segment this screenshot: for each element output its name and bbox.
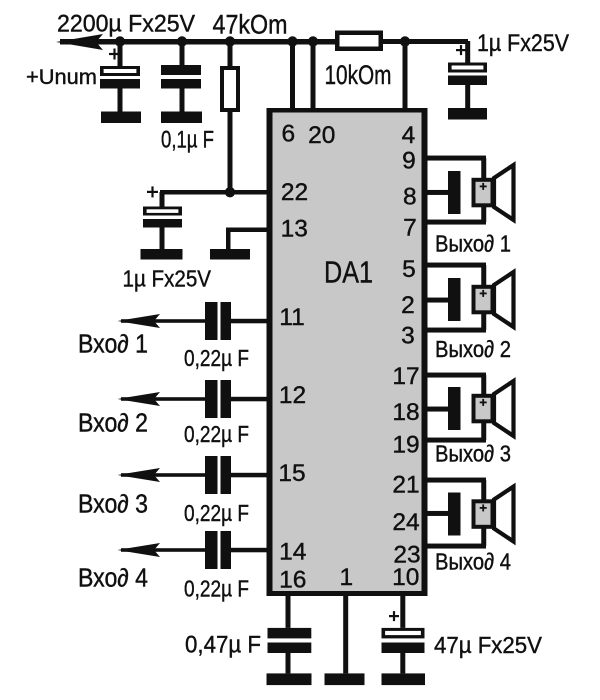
svg-text:0,22µ F: 0,22µ F <box>184 500 249 526</box>
wire input 2 left <box>121 397 205 401</box>
wire input 4 right <box>231 548 268 553</box>
ground under C2 <box>161 112 202 124</box>
ground under C9 <box>267 673 312 685</box>
svg-text:13: 13 <box>281 216 308 243</box>
input row 4: arrow Вход 4 <box>118 543 161 557</box>
ground under C4 <box>141 249 183 260</box>
svg-text:0,22µ F: 0,22µ F <box>184 421 249 447</box>
pin 16 lead <box>286 596 291 628</box>
ground under C1 <box>101 112 141 124</box>
svg-text:0,47µ F: 0,47µ F <box>185 632 261 659</box>
svg-text:18: 18 <box>392 399 419 426</box>
svg-text:1µ Fx25V: 1µ Fx25V <box>123 266 212 292</box>
input row 1: arrow Вход 1 <box>118 314 161 328</box>
speaker LS4 <box>472 487 514 542</box>
svg-text:11: 11 <box>279 304 304 331</box>
wire pin 22 <box>160 190 267 195</box>
svg-text:9: 9 <box>402 148 416 175</box>
svg-text:22: 22 <box>281 179 308 206</box>
capacitor C3 1µFx25V <box>448 41 487 108</box>
capacitor C7 0,22µF <box>205 456 231 494</box>
output 3 wires pins 17,18,19 <box>425 373 486 443</box>
wire input 3 right <box>231 473 268 478</box>
speaker LS1 <box>472 165 514 220</box>
svg-text:1µ Fx25V: 1µ Fx25V <box>477 30 569 57</box>
svg-text:Вхо∂ 1: Вхо∂ 1 <box>78 331 148 359</box>
resistor R1 47kOm <box>220 44 240 192</box>
svg-text:20: 20 <box>308 122 335 149</box>
ground under C10 <box>382 673 426 685</box>
capacitor C13 output 3 <box>448 387 461 430</box>
wire power rail left <box>60 39 336 45</box>
svg-text:15: 15 <box>278 460 305 487</box>
svg-text:DA1: DA1 <box>324 255 373 290</box>
capacitor C4 1µFx25V <box>143 186 182 249</box>
capacitor C6 0,22µF <box>205 380 231 418</box>
svg-text:19: 19 <box>392 432 419 459</box>
svg-text:0,22µ F: 0,22µ F <box>184 576 249 602</box>
svg-text:5: 5 <box>402 256 416 283</box>
capacitor C2 0,1µF <box>161 41 201 112</box>
svg-text:12: 12 <box>279 382 306 409</box>
svg-text:47µ Fx25V: 47µ Fx25V <box>434 632 542 658</box>
power input arrow <box>56 34 103 50</box>
svg-text:0,22µ F: 0,22µ F <box>184 345 249 371</box>
junction node C <box>225 36 235 46</box>
svg-text:23: 23 <box>393 542 420 569</box>
svg-text:8: 8 <box>403 184 417 211</box>
junction node E <box>308 36 318 46</box>
svg-text:Выхо∂ 1: Выхо∂ 1 <box>435 231 511 257</box>
svg-text:+Unum: +Unum <box>26 66 97 89</box>
resistor R2 10kOm <box>335 31 383 52</box>
capacitor C14 output 4 <box>448 493 461 536</box>
capacitor C8 0,22µF <box>205 531 231 569</box>
capacitor C9 0,47µF <box>268 628 312 674</box>
ground under C3 <box>448 108 487 120</box>
pin 10 lead <box>400 596 405 628</box>
svg-text:17: 17 <box>392 363 419 390</box>
junction node D <box>287 36 297 46</box>
wire input 4 left <box>121 548 205 552</box>
ground pin 1 <box>325 673 365 685</box>
svg-text:14: 14 <box>279 539 306 566</box>
pin 20 lead <box>311 44 316 108</box>
svg-text:16: 16 <box>279 567 306 594</box>
input row 3: arrow Вход 3 <box>118 468 161 482</box>
junction node F <box>400 36 410 46</box>
svg-text:6: 6 <box>281 121 295 148</box>
junction node G <box>225 187 235 197</box>
svg-text:1: 1 <box>339 564 353 591</box>
capacitor C10 47µFx25V <box>382 611 425 673</box>
svg-text:Выхо∂ 3: Выхо∂ 3 <box>435 441 511 467</box>
junction node B <box>177 36 187 46</box>
svg-text:0,1µ F: 0,1µ F <box>161 127 214 154</box>
capacitor C1 2200µF <box>100 41 140 112</box>
speaker LS2 <box>472 272 514 327</box>
svg-text:Выхо∂ 4: Выхо∂ 4 <box>435 549 511 575</box>
pin 6 lead <box>290 44 295 108</box>
capacitor C5 0,22µF <box>205 302 231 340</box>
junction node A <box>115 36 125 46</box>
svg-text:3: 3 <box>401 323 415 350</box>
svg-text:4: 4 <box>402 122 416 149</box>
capacitor C12 output 2 <box>448 278 461 321</box>
pin 1 lead <box>343 596 348 673</box>
speaker LS3 <box>472 381 514 436</box>
wire input 3 left <box>121 473 205 477</box>
svg-text:21: 21 <box>392 472 419 499</box>
svg-text:Выхо∂ 2: Выхо∂ 2 <box>435 336 511 362</box>
wire input 1 right <box>231 319 268 324</box>
capacitor C11 output 1 <box>448 171 461 214</box>
input row 2: arrow Вход 2 <box>118 392 161 406</box>
svg-text:10kOm: 10kOm <box>325 60 392 90</box>
wire input 1 left <box>121 319 205 323</box>
svg-text:47kOm: 47kOm <box>213 10 288 40</box>
ground pin 13 <box>210 249 250 260</box>
svg-text:7: 7 <box>403 215 417 242</box>
pin 4 lead <box>403 44 408 108</box>
output 4 wires pins 21,24,23 <box>425 478 486 549</box>
output 2 wires pins 5,2,3 <box>425 263 486 333</box>
svg-text:Вхо∂ 4: Вхо∂ 4 <box>78 565 148 593</box>
svg-text:24: 24 <box>392 509 419 536</box>
svg-text:Вхо∂ 2: Вхо∂ 2 <box>78 410 148 438</box>
wire power rail right <box>383 39 468 44</box>
output 1 wires pins 9,8,7 <box>425 156 486 225</box>
op-amp U1 DA1 IC body <box>267 108 428 596</box>
svg-text:2: 2 <box>401 292 415 319</box>
svg-text:2200µ Fx25V: 2200µ Fx25V <box>57 11 196 38</box>
wire input 2 right <box>231 397 268 402</box>
svg-text:Вхо∂ 3: Вхо∂ 3 <box>78 491 148 519</box>
wire pin 13 <box>226 228 268 250</box>
